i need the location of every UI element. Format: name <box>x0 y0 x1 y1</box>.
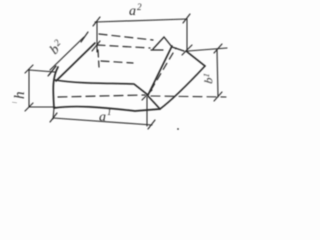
svg-text:a: a <box>129 4 136 19</box>
solid: short stub at back edge end <box>151 49 163 51</box>
svg-text:a: a <box>99 110 106 125</box>
dim a1: right extension long vertical <box>146 97 148 126</box>
svg-text:h: h <box>12 92 28 100</box>
tick at top-front-right junction <box>142 90 152 100</box>
svg-text:2: 2 <box>137 2 142 12</box>
tick a1 right <box>148 120 155 129</box>
dashed hidden: back-left lateral edge <box>98 50 99 67</box>
dashed hidden: long line right part / b1 bottom extension <box>151 96 226 97</box>
dim h: bottom extension <box>29 106 55 108</box>
tick h top <box>25 65 33 73</box>
tick a1 left <box>50 113 57 122</box>
label a1 <box>99 107 112 125</box>
dim a2: line <box>95 19 187 22</box>
solid: top back edge terminal kink <box>153 37 172 49</box>
tick b2 bottom <box>49 66 56 75</box>
solid: back-right top corner link <box>172 47 184 51</box>
tick at top-front-left corner <box>48 66 56 76</box>
solid: right depth edge of top face <box>148 46 172 95</box>
dim h: top extension <box>29 70 55 72</box>
dim a1: line <box>53 118 152 125</box>
solid: top-left depth edge <box>56 43 95 81</box>
label b2 (rotated along dim line) <box>47 37 68 58</box>
dim a1: left extension <box>53 108 54 119</box>
dashed hidden: upper line <box>99 34 153 40</box>
tick b1 bottom <box>214 92 222 101</box>
svg-text:1: 1 <box>107 107 112 117</box>
tick a2 right <box>183 14 190 23</box>
solid: bottom-right depth edge <box>160 66 205 109</box>
stray dot <box>177 128 179 130</box>
dashed hidden: internal diagonal of right face <box>151 48 176 90</box>
stray mark left edge <box>12 102 17 103</box>
dim a2: right extension <box>186 19 188 51</box>
tick h bottom <box>25 103 33 111</box>
tick at a2 right extension bottom <box>182 45 192 55</box>
solid: back-right lateral edge <box>186 51 205 66</box>
label a2 <box>129 2 142 19</box>
dim b1: vertical line <box>217 49 218 97</box>
tick b1 top <box>214 44 222 53</box>
tick b2 top <box>81 32 88 42</box>
dim a2: left extension <box>96 22 98 52</box>
solid: front-right lateral edge <box>148 96 160 109</box>
dashed hidden: top back edge <box>97 45 150 48</box>
dashed hidden: long line y=96 <box>58 95 145 97</box>
dim h: line <box>28 69 30 107</box>
label b1 (rotated) <box>201 73 216 85</box>
solid: top front edge <box>55 80 148 95</box>
solid: bottom front edge <box>54 107 160 111</box>
solid: front-left lateral edge <box>53 67 58 108</box>
dashed hidden: bottom back edge stub <box>101 61 133 63</box>
tick at top-back-left corner <box>92 41 100 51</box>
label h (rotated) <box>12 92 28 100</box>
dim b1: top extension <box>188 48 227 51</box>
tick a2 left <box>93 17 100 26</box>
dim b2: line <box>50 37 84 70</box>
